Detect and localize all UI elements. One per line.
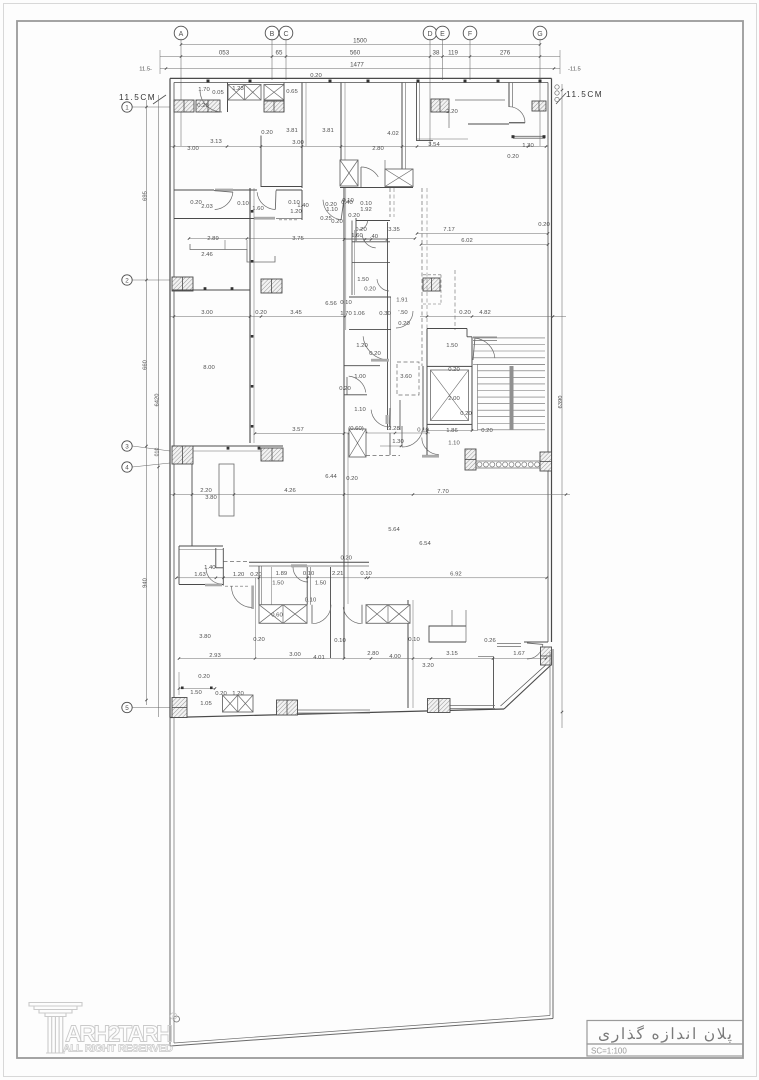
svg-text:1.10: 1.10 bbox=[448, 441, 460, 447]
svg-text:1.89: 1.89 bbox=[276, 571, 287, 577]
svg-text:0.20: 0.20 bbox=[339, 386, 351, 392]
svg-text:6.54: 6.54 bbox=[419, 541, 431, 547]
svg-text:695: 695 bbox=[143, 191, 149, 201]
svg-text:053: 053 bbox=[219, 50, 230, 57]
svg-text:3.20: 3.20 bbox=[422, 663, 434, 669]
svg-text:1.70: 1.70 bbox=[340, 311, 352, 317]
svg-text:0.20: 0.20 bbox=[310, 73, 322, 79]
svg-text:1: 1 bbox=[125, 104, 129, 111]
svg-text:65: 65 bbox=[276, 50, 283, 57]
svg-text:0.20: 0.20 bbox=[198, 674, 210, 680]
svg-text:3.75: 3.75 bbox=[292, 236, 304, 242]
svg-text:C: C bbox=[283, 31, 288, 38]
svg-text:0.20: 0.20 bbox=[348, 213, 360, 219]
svg-text:0.20: 0.20 bbox=[253, 637, 265, 643]
svg-text:2.80: 2.80 bbox=[372, 146, 384, 152]
svg-text:2.03: 2.03 bbox=[201, 204, 213, 210]
svg-text:A: A bbox=[179, 31, 184, 38]
svg-text:0.65: 0.65 bbox=[286, 89, 298, 95]
svg-text:4.26: 4.26 bbox=[284, 488, 296, 494]
svg-text:6.92: 6.92 bbox=[450, 571, 461, 577]
svg-text:1.06: 1.06 bbox=[353, 311, 365, 317]
svg-text:1.60: 1.60 bbox=[351, 233, 363, 239]
svg-text:ALL RIGHT RESERVED: ALL RIGHT RESERVED bbox=[63, 1043, 173, 1055]
svg-text:0.10: 0.10 bbox=[305, 598, 317, 604]
svg-text:3.60: 3.60 bbox=[400, 374, 412, 380]
svg-text:D: D bbox=[427, 31, 432, 38]
svg-text:560: 560 bbox=[350, 50, 361, 57]
svg-text:1.50: 1.50 bbox=[315, 581, 327, 587]
svg-text:0.20: 0.20 bbox=[369, 351, 381, 357]
svg-text:8.00: 8.00 bbox=[203, 365, 215, 371]
svg-text:2.89: 2.89 bbox=[207, 236, 218, 242]
svg-text:660: 660 bbox=[143, 360, 149, 370]
svg-text:0.20: 0.20 bbox=[460, 411, 472, 417]
svg-text:3.00: 3.00 bbox=[201, 310, 213, 316]
svg-text:1.60: 1.60 bbox=[252, 206, 264, 212]
svg-text:0.28: 0.28 bbox=[197, 103, 209, 109]
svg-text:0.30: 0.30 bbox=[379, 311, 391, 317]
svg-text:2.80: 2.80 bbox=[367, 651, 379, 657]
svg-text:0.10: 0.10 bbox=[334, 638, 346, 644]
svg-text:0.20: 0.20 bbox=[398, 321, 410, 327]
svg-text:11.5CM: 11.5CM bbox=[119, 93, 156, 102]
svg-text:3.80: 3.80 bbox=[199, 634, 211, 640]
svg-text:-11.5: -11.5 bbox=[568, 67, 581, 73]
svg-text:4.02: 4.02 bbox=[387, 131, 398, 137]
svg-text:1.63: 1.63 bbox=[194, 572, 206, 578]
svg-text:F: F bbox=[468, 31, 472, 38]
svg-text:38: 38 bbox=[433, 50, 440, 57]
svg-text:5.64: 5.64 bbox=[388, 527, 400, 533]
svg-text:1.40: 1.40 bbox=[204, 565, 216, 571]
svg-text:0.20: 0.20 bbox=[364, 287, 376, 293]
svg-text:0.25: 0.25 bbox=[320, 216, 332, 222]
svg-text:پلان اندازه گذاری: پلان اندازه گذاری bbox=[598, 1024, 732, 1043]
svg-text:1.91: 1.91 bbox=[396, 298, 407, 304]
svg-text:4.00: 4.00 bbox=[389, 654, 401, 660]
svg-text:0.26: 0.26 bbox=[484, 638, 496, 644]
svg-text:1.00: 1.00 bbox=[354, 374, 366, 380]
svg-text:0.10: 0.10 bbox=[408, 637, 420, 643]
svg-text:1.86: 1.86 bbox=[446, 428, 458, 434]
svg-text:2.46: 2.46 bbox=[201, 252, 213, 258]
svg-text:1.92: 1.92 bbox=[360, 207, 371, 213]
svg-text:1500: 1500 bbox=[353, 38, 367, 45]
svg-text:0.20: 0.20 bbox=[459, 310, 471, 316]
svg-text:3.80: 3.80 bbox=[205, 495, 217, 501]
svg-text:1.05: 1.05 bbox=[200, 701, 212, 707]
svg-text:0.10: 0.10 bbox=[360, 571, 372, 577]
svg-text:6390: 6390 bbox=[558, 396, 564, 409]
svg-text:1.20: 1.20 bbox=[356, 343, 368, 349]
svg-text:2.28: 2.28 bbox=[388, 426, 400, 432]
svg-text:2: 2 bbox=[125, 277, 129, 284]
svg-text:11.5CM: 11.5CM bbox=[566, 90, 603, 99]
svg-text:(0.60): (0.60) bbox=[348, 426, 363, 432]
svg-text:1.20: 1.20 bbox=[233, 572, 245, 578]
svg-text:6420: 6420 bbox=[155, 394, 161, 407]
svg-text:1477: 1477 bbox=[350, 62, 364, 69]
svg-text:B: B bbox=[270, 31, 275, 38]
svg-text:3.13: 3.13 bbox=[210, 139, 222, 145]
svg-text:0.40: 0.40 bbox=[341, 200, 353, 206]
svg-text:0.05: 0.05 bbox=[212, 90, 224, 96]
svg-text:6.44: 6.44 bbox=[325, 474, 337, 480]
svg-text:0.20: 0.20 bbox=[190, 200, 202, 206]
svg-text:1.50: 1.50 bbox=[357, 277, 369, 283]
svg-text:2.21: 2.21 bbox=[332, 571, 343, 577]
svg-text:1.30: 1.30 bbox=[522, 143, 534, 149]
svg-text:010: 010 bbox=[155, 448, 161, 457]
svg-text:6.56: 6.56 bbox=[325, 301, 337, 307]
svg-text:3.00: 3.00 bbox=[187, 146, 199, 152]
svg-text:3.81: 3.81 bbox=[286, 128, 297, 134]
svg-text:4.82: 4.82 bbox=[479, 310, 490, 316]
svg-text:0.20: 0.20 bbox=[507, 154, 519, 160]
svg-text:3.54: 3.54 bbox=[428, 142, 440, 148]
svg-text:0.20: 0.20 bbox=[331, 219, 343, 225]
svg-text:0.20: 0.20 bbox=[346, 476, 358, 482]
svg-text:1.23: 1.23 bbox=[232, 86, 244, 92]
svg-text:2.20: 2.20 bbox=[200, 488, 212, 494]
svg-text:3.00: 3.00 bbox=[289, 652, 301, 658]
svg-text:3.35: 3.35 bbox=[388, 227, 400, 233]
svg-text:0.20: 0.20 bbox=[261, 130, 273, 136]
svg-text:G: G bbox=[537, 31, 542, 38]
svg-text:0.20: 0.20 bbox=[481, 428, 493, 434]
svg-text:0.10: 0.10 bbox=[417, 428, 429, 434]
svg-text:0.60: 0.60 bbox=[271, 613, 283, 619]
svg-text:.40: .40 bbox=[370, 234, 379, 240]
svg-text:0.10: 0.10 bbox=[340, 300, 352, 306]
svg-text:1.70: 1.70 bbox=[198, 87, 210, 93]
svg-text:E: E bbox=[440, 31, 445, 38]
svg-text:1.50: 1.50 bbox=[446, 343, 458, 349]
svg-text:11.5-: 11.5- bbox=[139, 67, 152, 73]
svg-text:4: 4 bbox=[125, 464, 129, 471]
svg-text:1.10: 1.10 bbox=[354, 407, 366, 413]
svg-text:1.10: 1.10 bbox=[326, 207, 338, 213]
svg-text:'.50: '.50 bbox=[398, 310, 408, 316]
svg-text:276: 276 bbox=[500, 50, 511, 57]
svg-text:7.17: 7.17 bbox=[443, 227, 454, 233]
svg-text:0.20: 0.20 bbox=[538, 222, 550, 228]
svg-text:4.01: 4.01 bbox=[313, 655, 324, 661]
svg-text:3: 3 bbox=[125, 443, 129, 450]
svg-text:2.20: 2.20 bbox=[446, 109, 458, 115]
svg-text:3.00: 3.00 bbox=[292, 140, 304, 146]
svg-text:1.30: 1.30 bbox=[392, 439, 404, 445]
svg-text:0.20: 0.20 bbox=[448, 367, 460, 373]
svg-text:0.20: 0.20 bbox=[215, 691, 227, 697]
svg-text:0.20: 0.20 bbox=[250, 572, 262, 578]
svg-text:1.67: 1.67 bbox=[513, 651, 524, 657]
svg-text:2.93: 2.93 bbox=[209, 653, 221, 659]
svg-text:1.20: 1.20 bbox=[232, 691, 244, 697]
svg-text:3.15: 3.15 bbox=[446, 651, 458, 657]
svg-text:1.50: 1.50 bbox=[190, 690, 202, 696]
svg-text:5: 5 bbox=[125, 705, 129, 712]
svg-text:0.20: 0.20 bbox=[255, 310, 267, 316]
svg-text:119: 119 bbox=[448, 50, 458, 57]
svg-text:1.50: 1.50 bbox=[272, 581, 284, 587]
svg-text:0.10: 0.10 bbox=[237, 201, 249, 207]
svg-text:SC=1:100: SC=1:100 bbox=[591, 1047, 627, 1056]
svg-text:1.20: 1.20 bbox=[290, 209, 302, 215]
svg-text:3.45: 3.45 bbox=[290, 310, 302, 316]
svg-text:3.57: 3.57 bbox=[292, 427, 303, 433]
svg-text:0.20: 0.20 bbox=[340, 556, 352, 562]
svg-text:940: 940 bbox=[143, 578, 149, 588]
svg-text:3.81: 3.81 bbox=[322, 128, 333, 134]
svg-text:7.70: 7.70 bbox=[437, 489, 449, 495]
svg-text:0.10: 0.10 bbox=[303, 571, 315, 577]
svg-text:6.02: 6.02 bbox=[461, 238, 472, 244]
svg-text:1.40: 1.40 bbox=[297, 203, 309, 209]
svg-text:2.00: 2.00 bbox=[448, 396, 460, 402]
